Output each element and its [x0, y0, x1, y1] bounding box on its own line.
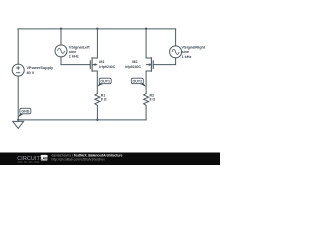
junction node M2 drain/top rail [145, 28, 147, 30]
svg-text:OUT2: OUT2 [133, 80, 143, 84]
junction node M1 drain/top rail [96, 28, 98, 30]
wire M1 drain [96, 29, 98, 58]
net tag GND [18, 108, 31, 117]
svg-text:M2: M2 [132, 60, 137, 64]
wire bottom rail [18, 119, 146, 121]
svg-text:http://circuitlab.com/c/5bafv3: http://circuitlab.com/c/5bafv3/testnex [52, 158, 106, 162]
resistor R2 8 Ohm [144, 94, 149, 106]
svg-text:OUT1: OUT1 [100, 80, 110, 84]
wire top rail [18, 28, 175, 30]
transistor M1 irfp9240C (NMOS, gate left) [90, 57, 97, 72]
M2 body arrow [147, 63, 150, 66]
svg-text:1 kHz: 1 kHz [182, 55, 192, 59]
svg-text:LAB: LAB [40, 156, 48, 160]
svg-text:1 kHz: 1 kHz [69, 55, 79, 59]
resistor R1 8 Ohm [95, 94, 100, 106]
svg-text:CIRCUIT: CIRCUIT [17, 156, 40, 162]
wire VSignalLeft top drop [60, 29, 62, 45]
svg-text:GND: GND [21, 110, 29, 114]
net tag OUT2 [131, 78, 146, 87]
M1 body arrow [93, 63, 96, 66]
junction node VSignalLeft/top rail [60, 28, 62, 30]
ground symbol [13, 120, 24, 128]
voltage source VSignalLeft sine 1 kHz [55, 45, 67, 57]
voltage source VSignalRight sine 1 kHz [170, 46, 182, 58]
net tag OUT1 [97, 78, 111, 87]
wire VSignalLeft to M1 gate [61, 57, 90, 65]
wire V1 bottom to ground rail [17, 76, 19, 120]
wire M2 source to R2 [145, 71, 147, 94]
junction node R1/bottom rail [96, 119, 98, 121]
svg-text:sine: sine [182, 50, 190, 54]
wire M1 source to R1 [96, 71, 98, 94]
wire R1 bottom [96, 105, 98, 120]
svg-text:M1: M1 [99, 60, 104, 64]
junction node ground/bottom rail [17, 119, 19, 121]
svg-text:irfp9240C: irfp9240C [125, 65, 141, 69]
svg-text:80 V: 80 V [27, 71, 35, 75]
footer bar [0, 153, 220, 166]
wire R2 bottom [145, 105, 147, 120]
wire VSignalRight to M2 gate [153, 58, 175, 65]
svg-text:VSignalLeft: VSignalLeft [69, 45, 91, 49]
transistor M2 irfp9240C (NMOS, gate right, mirrored) [146, 57, 153, 72]
svg-text:irfp9240C: irfp9240C [99, 65, 115, 69]
svg-text:8 Ω: 8 Ω [150, 97, 156, 101]
logo CIRCUIT LAB [17, 155, 48, 162]
wire M2 drain [145, 29, 147, 58]
svg-text:8 Ω: 8 Ω [101, 97, 107, 101]
svg-text:VSignalRight: VSignalRight [182, 45, 206, 49]
svg-text:VPowerSupply: VPowerSupply [27, 66, 54, 70]
wire left drop to V1 [17, 29, 19, 64]
voltage source V1 VPowerSupply 80 V [12, 64, 24, 76]
wire VSignalRight top drop [175, 29, 177, 46]
svg-text:sine: sine [69, 50, 77, 54]
